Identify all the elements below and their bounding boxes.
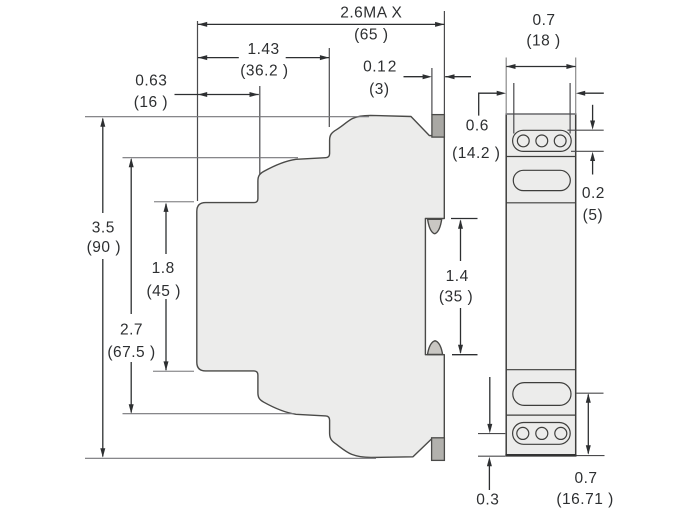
svg-text:0.3: 0.3	[476, 492, 499, 509]
dim 1.4 bottom arrow	[458, 345, 463, 354]
svg-text:0.7: 0.7	[532, 12, 555, 29]
dim 0.2 top arrow	[590, 121, 595, 130]
dim 1.8 line	[165, 204, 167, 254]
dim 0.3 up arrow	[487, 457, 492, 466]
dim 0.3 down arrow stem	[489, 377, 491, 425]
ext line 0.7-18 left	[505, 58, 507, 114]
ref line 2.7 top	[123, 157, 299, 159]
top terminal hole 1	[517, 135, 529, 147]
ref line 2.7 bottom	[123, 413, 294, 415]
dim 0.7-16.71 top arrow	[586, 393, 591, 402]
front view body	[506, 114, 576, 456]
dim 0.3 up arrow stem	[488, 466, 490, 491]
dim 3.5 line	[102, 119, 104, 213]
ref line 3.5 bottom	[85, 457, 376, 459]
dim 1.43 line	[198, 57, 239, 59]
svg-text:(65 ): (65 )	[354, 26, 388, 43]
svg-text:3.5: 3.5	[92, 220, 115, 237]
svg-text:(36.2 ): (36.2 )	[240, 63, 288, 80]
dim 0.6 right arrow	[576, 91, 585, 96]
tick 1.8 top	[154, 201, 194, 203]
bottom clip tab	[428, 341, 443, 355]
dim 1.43 right arrow	[320, 55, 329, 60]
svg-text:1.43: 1.43	[248, 41, 280, 58]
dim 0.7-18 left arrow	[506, 64, 515, 69]
dim 0.6 right line	[585, 92, 604, 94]
svg-text:(45 ): (45 )	[147, 283, 181, 300]
dim 0.7-18 line	[506, 66, 576, 68]
front view divider 2	[506, 202, 576, 204]
dim 0.12 right line	[445, 76, 471, 78]
dim 0.12 left line	[404, 76, 425, 78]
dim 0.12 right arrow	[445, 74, 454, 79]
top clip tab	[428, 219, 442, 233]
dim 1.43 left arrow	[198, 55, 207, 60]
ref line 3.5 top	[85, 116, 369, 118]
tick 1.8 bottom	[153, 370, 194, 372]
dim 0.7-16.71 bottom arrow	[586, 445, 591, 454]
extension line step x329.3	[328, 48, 330, 127]
svg-text:2.6MA X: 2.6MA X	[340, 4, 402, 21]
ref 0.7-16.71 top	[577, 392, 604, 394]
svg-text:0.7: 0.7	[574, 470, 597, 487]
svg-text:0.6: 0.6	[466, 117, 489, 134]
front view divider 1	[506, 156, 576, 158]
dim 2.7 line	[130, 159, 132, 314]
dim 0.2 bottom arrow stem	[592, 160, 594, 175]
dim 0.2 top arrow stem	[592, 105, 594, 122]
front view top edge gray	[506, 113, 577, 115]
ref 0.2 bottom	[571, 150, 604, 152]
svg-text:2.7: 2.7	[120, 321, 143, 338]
upper oval slot	[513, 170, 570, 190]
dim 1.8 bottom arrow	[164, 361, 169, 370]
svg-text:0.2: 0.2	[582, 185, 605, 202]
dim 0.63 leader and line	[175, 94, 259, 96]
svg-text:(35 ): (35 )	[439, 289, 473, 306]
dim 1.4 line	[460, 221, 462, 261]
dim 2.6MAX left arrow	[198, 22, 207, 27]
dim 0.6 leader arrow	[497, 91, 506, 96]
dim 1.8 top arrow	[164, 203, 169, 212]
svg-text:0.12: 0.12	[363, 59, 397, 76]
front view thick bottom edge	[505, 454, 576, 457]
dim 0.12 left arrow	[423, 74, 432, 79]
svg-text:0.63: 0.63	[135, 72, 167, 89]
DIN rail edge top rect	[432, 115, 445, 138]
ext line 0.7-18 right	[575, 58, 577, 114]
top terminal hole 3	[554, 135, 566, 147]
bottom terminal hole 2	[536, 427, 548, 439]
dim 2.6MAX right arrow	[435, 22, 444, 27]
dim 0.3 down arrow	[487, 424, 492, 433]
DIN rail edge bottom rect	[432, 438, 445, 461]
dim 3.5 top arrow	[100, 118, 105, 127]
dim 2.7 bottom arrow	[129, 404, 134, 413]
dim 0.2 bottom arrow	[590, 152, 595, 161]
top terminal block	[513, 130, 572, 151]
dim 3.5 bottom arrow	[100, 448, 105, 457]
bottom terminal hole 3	[555, 427, 567, 439]
bottom terminal block	[513, 423, 571, 445]
svg-text:(16.71 ): (16.71 )	[556, 491, 613, 508]
svg-text:1.8: 1.8	[152, 260, 175, 277]
front view divider 3	[506, 369, 576, 371]
extension line rail right x444.4	[443, 11, 445, 115]
tick 0.3 top	[478, 433, 505, 435]
svg-text:(5): (5)	[583, 207, 603, 224]
dim 0.63 left arrow	[198, 92, 207, 97]
ref line 1.4 top	[451, 218, 478, 220]
extension line rail left x431.9	[431, 68, 433, 115]
bottom terminal hole 1	[517, 427, 529, 439]
top terminal hole 2	[536, 135, 548, 147]
svg-text:(16 ): (16 )	[134, 94, 168, 111]
dim 0.7-16.71 line	[587, 395, 589, 454]
svg-text:(90 ): (90 )	[87, 239, 121, 256]
dim 0.63 right arrow	[250, 92, 259, 97]
extension line left body edge	[197, 21, 199, 201]
dim 2.7 top arrow	[129, 158, 134, 167]
lower oval slot	[513, 383, 571, 406]
ref line 1.4 bottom	[452, 354, 478, 356]
svg-text:(3): (3)	[369, 81, 389, 98]
tick 0.3 bottom	[478, 455, 505, 457]
ref 0.7-16.71 bottom	[577, 455, 605, 457]
svg-text:(18 ): (18 )	[526, 33, 560, 50]
dim 1.4 top arrow	[458, 219, 463, 228]
side view body outline	[197, 115, 444, 457]
dim 0.6 leader	[479, 93, 498, 115]
ref 0.2 top	[568, 129, 604, 131]
dim 2.6MAX line	[198, 23, 445, 25]
ext line 0.6 inner left	[513, 83, 515, 134]
ext line 0.6 inner right	[569, 83, 571, 134]
dim 0.7-18 right arrow	[566, 64, 575, 69]
svg-text:(14.2 ): (14.2 )	[452, 145, 500, 162]
svg-text:(67.5 ): (67.5 )	[107, 344, 155, 361]
front view divider 4	[506, 414, 576, 416]
extension line step x259.8	[259, 86, 261, 175]
svg-text:1.4: 1.4	[446, 268, 469, 285]
